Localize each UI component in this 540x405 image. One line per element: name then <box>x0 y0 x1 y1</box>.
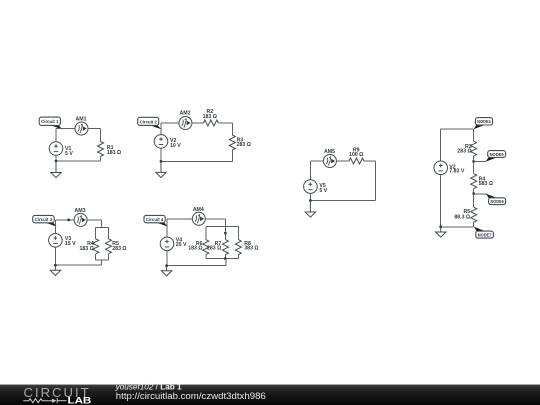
wire C4 mid feed lower <box>225 259 227 266</box>
svg-text:LAB: LAB <box>68 396 92 405</box>
flag label Circuit 3 <box>33 215 57 226</box>
wire NL right seg5 <box>473 194 475 208</box>
wire NL left upper <box>440 129 442 161</box>
svg-text:183 Ω: 183 Ω <box>80 246 94 252</box>
wire NL top <box>441 128 474 130</box>
junction C2 ground node <box>160 160 163 163</box>
svg-text:5 V: 5 V <box>65 151 73 157</box>
resistor R2 body <box>203 120 218 126</box>
svg-text:AM2: AM2 <box>180 111 191 117</box>
wire C2 right lower <box>231 150 233 161</box>
junction C5 ground node <box>309 199 312 202</box>
wire C3 left branch lower <box>95 254 97 260</box>
svg-text:Circuit 4: Circuit 4 <box>146 217 164 223</box>
wire C4 left upper <box>166 219 168 237</box>
wire C3 top bus <box>96 226 109 228</box>
wire C3 bottom <box>55 264 101 266</box>
resistor R1 body <box>98 142 104 157</box>
resistor R3 body <box>229 135 235 150</box>
resistor R4 body <box>93 239 99 254</box>
flag node NODE7 <box>474 227 494 239</box>
resistor R4 body <box>471 174 477 189</box>
flag label Circuit 4 <box>144 215 168 226</box>
wire C5 right <box>375 161 377 201</box>
ammeter AM5 <box>323 155 336 168</box>
wire C2 left upper <box>160 123 162 134</box>
wire C5 top-right <box>364 160 376 162</box>
svg-text:yousef102 / Lab 1: yousef102 / Lab 1 <box>115 382 182 391</box>
ammeter AM4 <box>192 212 205 225</box>
svg-text:383 Ω: 383 Ω <box>244 246 258 252</box>
wire C2 top-left <box>161 122 179 124</box>
wire C4 left branch upper <box>205 226 207 239</box>
resistor R7 body <box>222 240 228 255</box>
svg-text:Circuit 2: Circuit 2 <box>140 119 157 125</box>
wire C4 top-left <box>167 218 192 220</box>
ground <box>51 161 61 178</box>
flag node NODE6 <box>474 193 487 195</box>
flag label Circuit 2 <box>138 117 162 129</box>
wire C1 left lower <box>55 156 57 162</box>
resistor R5 body <box>106 239 112 254</box>
ammeter AM2 <box>179 117 192 130</box>
wire C2 right upper <box>231 123 233 135</box>
wire C1 left upper <box>55 129 57 142</box>
svg-text:583 Ω: 583 Ω <box>479 181 493 187</box>
wire NL right seg3 <box>473 162 475 174</box>
wire C5 top-left <box>310 160 323 162</box>
svg-text:http://circuitlab.com/czwdt3dt: http://circuitlab.com/czwdt3dtxh986 <box>116 391 266 401</box>
wire NL right seg2 <box>473 156 475 161</box>
svg-text:283 Ω: 283 Ω <box>237 142 251 148</box>
ground <box>156 161 166 177</box>
wire C2 left lower <box>160 148 162 161</box>
svg-text:AM5: AM5 <box>324 149 335 155</box>
wire C1 right upper <box>100 129 102 142</box>
junction C3 top wire <box>67 219 70 222</box>
wire C4 bottom bus <box>206 258 239 260</box>
wire C3 left upper <box>54 220 56 233</box>
wire NL left lower <box>440 175 442 227</box>
wire C2 top-mid <box>192 122 203 124</box>
svg-text:Circuit 3: Circuit 3 <box>35 217 53 223</box>
ground <box>161 266 171 276</box>
wire C4 right branch upper <box>237 226 239 239</box>
svg-text:5 V: 5 V <box>319 188 327 194</box>
svg-text:NODE6: NODE6 <box>491 199 504 205</box>
resistor R8 body <box>235 240 241 255</box>
logo diode triangle <box>52 399 57 403</box>
wire C4 right branch lower <box>237 255 239 259</box>
wire C2 bottom <box>161 160 232 162</box>
junction NODE6 <box>472 192 475 195</box>
resistor R9 body <box>349 158 364 164</box>
flag label Circuit 1 <box>39 117 62 129</box>
junction C4 mid upper <box>224 232 227 235</box>
wire C4 bottom <box>167 265 227 267</box>
voltage source V2 <box>434 161 448 175</box>
wire NL right seg4 <box>473 189 475 194</box>
voltage source V1 <box>49 142 63 156</box>
svg-text:283 Ω: 283 Ω <box>457 149 471 155</box>
junction NL ground node <box>439 225 442 228</box>
svg-text:100 Ω: 100 Ω <box>349 152 363 158</box>
ammeter AM3 <box>74 213 87 226</box>
ground <box>305 201 315 218</box>
wire C3 bottom bus <box>96 259 109 261</box>
wire C3 right branch lower <box>108 254 110 260</box>
wire C3 feed bottom <box>101 260 103 265</box>
wire C3 left lower <box>54 247 56 265</box>
wire C4 left branch lower <box>205 255 207 259</box>
wire C5 left upper <box>309 161 311 180</box>
junction C4 bottom bus <box>224 257 227 260</box>
wire C5 top-mid <box>336 160 349 162</box>
ammeter AM1 <box>75 122 88 135</box>
voltage source V5 <box>304 180 318 194</box>
wire C5 bottom <box>310 200 375 202</box>
wire C3 right branch upper <box>108 227 110 239</box>
wire C1 top-left <box>56 128 75 130</box>
resistor R6 body <box>203 240 209 255</box>
wire C3 top-right <box>87 219 102 221</box>
wire NL bottom <box>441 226 474 228</box>
voltage source V3 <box>49 234 63 248</box>
svg-text:10 V: 10 V <box>170 143 181 149</box>
wire C1 bottom <box>56 160 101 162</box>
svg-text:183 Ω: 183 Ω <box>188 246 202 252</box>
svg-text:283 Ω: 283 Ω <box>112 246 126 252</box>
wire C4 mid branch lower <box>224 255 226 259</box>
wire NL right seg6 <box>473 222 475 227</box>
svg-text:283 Ω: 283 Ω <box>207 246 221 252</box>
junction C1 ground node <box>55 160 58 163</box>
wire C4 mid branch upper <box>224 233 226 240</box>
flag node NODE4 <box>474 118 493 130</box>
footer bar <box>0 385 540 405</box>
svg-text:NODE4: NODE4 <box>477 119 491 125</box>
wire C4 mid feed upper <box>224 219 226 233</box>
svg-text:88.3 Ω: 88.3 Ω <box>454 215 470 221</box>
wire C4 left lower <box>166 251 168 266</box>
svg-text:NODE7: NODE7 <box>478 233 492 239</box>
wire C1 top-right <box>88 128 101 130</box>
junction C4 ground node <box>165 264 168 267</box>
wire NL right seg1 <box>473 129 475 141</box>
ground <box>50 265 60 275</box>
voltage source V2 <box>154 135 168 149</box>
svg-text:15 V: 15 V <box>65 241 76 247</box>
svg-text:NODE5: NODE5 <box>490 152 504 158</box>
logo resistor-diode squiggle <box>23 398 66 403</box>
junction NODE5 <box>472 160 475 163</box>
voltage source V4 <box>160 237 174 251</box>
wire C3 top-left <box>55 219 74 221</box>
wire C2 top-right <box>218 122 232 124</box>
wire C4 top-right <box>205 218 225 220</box>
wire C3 left branch upper <box>95 227 97 239</box>
wire C3 feed down <box>101 220 103 227</box>
wire C1 right lower <box>100 157 102 162</box>
footer bar top edge <box>0 384 540 385</box>
wire C4 top bus <box>206 225 239 227</box>
wire C5 left lower <box>309 194 311 201</box>
svg-text:20 V: 20 V <box>176 242 187 248</box>
svg-text:183 Ω: 183 Ω <box>107 150 121 156</box>
svg-text:Circuit 1: Circuit 1 <box>41 119 59 125</box>
resistor R3 body <box>471 141 477 156</box>
flag node NODE5 <box>474 161 486 163</box>
ground <box>436 227 446 237</box>
resistor R5 body <box>471 207 477 222</box>
svg-text:7.83 V: 7.83 V <box>449 168 465 174</box>
junction C3 ground node <box>54 264 57 267</box>
